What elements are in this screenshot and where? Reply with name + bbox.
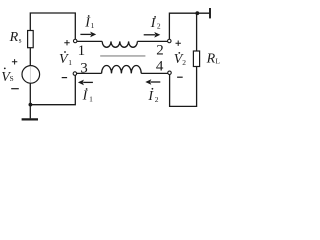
terminal bar top-right [209,8,211,18]
label V1 with dot [59,51,72,67]
minus sign at node 4 [177,76,183,78]
minus sign at node 3 [62,77,67,79]
svg-text:2: 2 [155,95,159,104]
svg-text:1: 1 [89,94,93,103]
svg-text:R: R [206,52,216,67]
svg-text:1: 1 [91,21,95,30]
svg-text:3: 3 [80,60,88,76]
minus sign at Vs [11,88,19,90]
node 2 terminal [168,39,172,43]
wire top-left from Rs to node 1 drop [30,13,75,39]
inductor L1 winding [102,41,137,47]
svg-text:s: s [19,35,22,44]
wire node 2 riser and top-right [169,13,209,39]
label I1 bottom with dot [82,88,94,103]
inductor L2 winding [102,66,142,74]
wire top coil baseline right [137,40,167,42]
wire RL drop [196,13,198,51]
wire bottom-left to node 3 riser [30,76,75,105]
arrow I1 bottom (leftward) [78,80,93,86]
plus sign at node 2 [176,41,181,46]
svg-text:1: 1 [68,58,72,67]
wire Vs bottom to ground [29,83,31,118]
label RL [206,52,221,67]
label I1 top with dot [84,15,94,31]
wire bottom coil baseline left [77,72,102,74]
wire bottom coil baseline right [141,72,168,74]
svg-text:4: 4 [156,59,164,75]
svg-text:S: S [10,74,14,83]
junction dot bottom-left [29,103,33,107]
label Rs [9,30,22,45]
label I2 bottom with dot [147,88,158,104]
svg-text:2: 2 [182,58,186,67]
node 1 terminal [73,39,77,43]
wire top coil baseline left [77,40,102,42]
resistor Rs [28,31,34,48]
resistor RL [193,51,199,67]
wire RL bottom to node 4 [170,67,197,107]
label I2 top with dot [150,16,161,31]
ground symbol [22,118,38,120]
label V2 with dot [174,52,187,67]
svg-text:2: 2 [157,22,161,31]
arrow I2 top [144,32,161,38]
arrow I1 top [80,32,96,38]
label Vs with dot [1,68,13,86]
junction dot top-right [195,11,199,15]
svg-text:1: 1 [78,43,86,59]
svg-text:2: 2 [156,43,164,59]
svg-text:L: L [215,56,220,65]
source Vs circle [22,66,40,84]
plus sign at node 1 [64,40,69,45]
node 3 terminal [73,72,77,76]
wire Rs bottom to Vs top [29,48,31,66]
arrow I2 bottom (leftward) [145,79,160,85]
plus sign at Vs [12,59,17,64]
core line between windings [100,55,145,57]
node 4 terminal [168,71,172,75]
svg-text:R: R [9,30,19,45]
